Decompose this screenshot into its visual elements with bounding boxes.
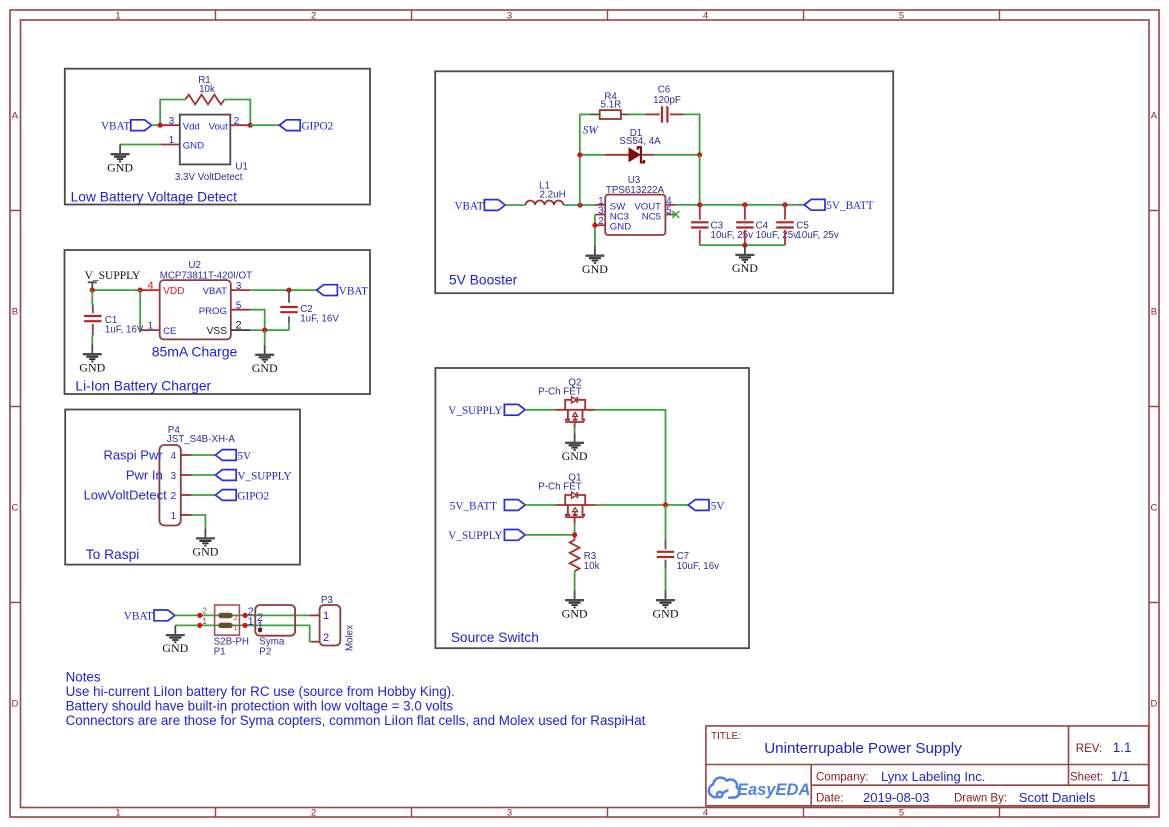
node junction Q1 gate / R3: [572, 532, 577, 537]
pin 3 stub of U2 (VBAT): [231, 289, 250, 291]
pin 4 stub of U2 (VDD, red): [140, 289, 160, 291]
svg-text:10k: 10k: [199, 84, 215, 95]
ground symbol C7: [653, 591, 679, 621]
svg-text:5: 5: [899, 808, 904, 819]
svg-text:3: 3: [171, 471, 177, 482]
svg-text:1.1: 1.1: [1113, 740, 1132, 755]
svg-text:VBAT: VBAT: [454, 200, 483, 212]
node junction bottom row P1 left: [197, 623, 202, 628]
svg-text:1: 1: [169, 135, 174, 146]
wire GND to pin1: [120, 144, 161, 146]
svg-text:V_SUPPLY: V_SUPPLY: [237, 470, 291, 482]
P1 pad bottom: [219, 623, 232, 627]
svg-text:4: 4: [703, 10, 708, 21]
svg-text:Date:: Date:: [816, 793, 844, 805]
P3 pin 1 stub: [310, 614, 320, 616]
node junction VBAT/pin3: [158, 123, 163, 128]
svg-text:5: 5: [899, 10, 904, 21]
svg-text:NC5: NC5: [642, 211, 661, 222]
wire L1 to SW pin: [563, 204, 595, 206]
svg-text:U2: U2: [188, 260, 201, 271]
svg-text:5V_BATT: 5V_BATT: [450, 500, 497, 512]
capacitor C4 plates: [736, 222, 753, 227]
capacitor C5 leads: [784, 205, 786, 245]
block frame: Low Battery Voltage Detect: [65, 69, 370, 205]
wire 5V_BATT to Q1: [525, 504, 555, 506]
P4 pin 1 stub: [181, 514, 192, 516]
capacitor C5 plates: [776, 222, 793, 227]
Q2 gate stem: [574, 422, 576, 428]
P1 pad top: [219, 613, 232, 617]
svg-text:5: 5: [236, 300, 242, 311]
node junction SW: [578, 202, 583, 207]
svg-text:V_SUPPLY: V_SUPPLY: [448, 405, 502, 417]
svg-text:CE: CE: [163, 326, 176, 337]
port VBAT: [131, 120, 152, 131]
svg-text:P2: P2: [259, 646, 271, 657]
svg-text:Notes: Notes: [66, 670, 101, 685]
pin 1 stub of U1: [161, 144, 180, 146]
wire V_SUPPLY to Q2: [525, 409, 555, 411]
node junction V_SUPPLY/C1: [90, 288, 95, 293]
connector P4 body: [159, 445, 180, 526]
capacitor C2 plates: [280, 307, 297, 312]
capacitor C6 plates: [662, 106, 667, 122]
wire Q1 to 5V junction: [595, 504, 688, 506]
svg-text:1: 1: [248, 616, 254, 628]
node junction diode left: [577, 152, 582, 157]
svg-text:B: B: [1151, 307, 1157, 318]
block frame: Li-Ion Battery Charger: [65, 250, 371, 394]
svg-text:P-Ch FET: P-Ch FET: [538, 482, 582, 493]
svg-text:5: 5: [666, 206, 672, 217]
wire V_SUPPLY to pin4 junction: [92, 289, 140, 291]
pin 2 stub of U3 (GND): [595, 224, 605, 226]
pin 2 stub of U2 (VSS, black): [231, 329, 250, 331]
svg-text:Drawn By:: Drawn By:: [954, 793, 1007, 805]
svg-text:1: 1: [115, 10, 120, 21]
svg-text:C: C: [11, 503, 18, 514]
pin 1 stub of U2 (CE): [140, 329, 160, 331]
frame column ticks top: [216, 10, 1000, 20]
ground symbol R3: [562, 591, 588, 621]
svg-text:Raspi Pwr: Raspi Pwr: [103, 447, 163, 462]
wire C2 bottom to VSS wire: [288, 323, 290, 330]
svg-text:Scott Daniels: Scott Daniels: [1019, 790, 1096, 805]
resistor R4 lead right: [621, 113, 630, 115]
ground symbol under C1: [79, 345, 105, 375]
svg-text:10k: 10k: [584, 561, 600, 572]
wire VSS to C2 bottom: [250, 329, 289, 331]
node junction top row P1 left: [197, 613, 202, 618]
port VBAT (charger output): [317, 285, 338, 296]
wire R1 right loop: [225, 100, 251, 126]
resistor R3 lead top: [574, 535, 576, 540]
title block outer rect: [706, 726, 1149, 806]
svg-text:3: 3: [598, 206, 604, 217]
port 5V (output): [688, 500, 709, 511]
wire Q2 to output corner: [595, 410, 666, 505]
connector P2 body: [255, 605, 295, 636]
svg-text:VDD: VDD: [163, 286, 185, 297]
no-connect X on NC5: [672, 211, 679, 218]
svg-text:4: 4: [147, 280, 153, 292]
svg-text:Connectors are are those for S: Connectors are are those for Syma copter…: [66, 713, 646, 728]
wire NC3 to GND pin vertical: [594, 215, 596, 247]
svg-text:2: 2: [234, 116, 239, 127]
svg-text:5.1R: 5.1R: [601, 99, 622, 110]
svg-text:3.3V VoltDetect: 3.3V VoltDetect: [175, 172, 243, 183]
svg-text:2019-08-03: 2019-08-03: [863, 790, 930, 805]
wire right loop vertical to VOUT row: [699, 155, 701, 205]
P2 pad dot: [258, 628, 262, 632]
wire 5V junction down to C7: [665, 505, 667, 540]
wire top loop right segment: [684, 114, 700, 154]
svg-text:2: 2: [311, 808, 316, 819]
svg-text:D: D: [1150, 699, 1157, 710]
port VBAT (battery connector row): [154, 610, 175, 621]
wire pin2 to GIPO2 port: [192, 494, 216, 496]
pin 4 stub of U3 (VOUT): [665, 204, 675, 206]
capacitor C6 lead right: [670, 113, 684, 115]
title block REV/Sheet column divider: [1068, 726, 1070, 785]
svg-text:1: 1: [202, 617, 207, 626]
IC U2 body: [160, 280, 231, 339]
resistor R4 body: [600, 110, 621, 119]
svg-text:10uF, 25v: 10uF, 25v: [756, 230, 799, 241]
svg-text:3: 3: [236, 281, 242, 292]
P3 pin 2 stub: [312, 641, 320, 643]
svg-text:Company:: Company:: [816, 772, 868, 784]
svg-text:LowVoltDetect: LowVoltDetect: [84, 487, 167, 502]
frame column ticks bottom: [216, 808, 1000, 818]
svg-text:GIPO2: GIPO2: [302, 121, 334, 133]
svg-text:2: 2: [234, 615, 238, 622]
svg-text:Lynx Labeling Inc.: Lynx Labeling Inc.: [881, 769, 985, 784]
svg-text:3: 3: [507, 10, 512, 21]
connector P1 body: [215, 605, 240, 635]
svg-text:REV:: REV:: [1076, 743, 1102, 755]
svg-text:V_SUPPLY: V_SUPPLY: [85, 270, 141, 282]
svg-text:2.2uH: 2.2uH: [540, 189, 566, 200]
diode D1 body: [629, 148, 640, 161]
power flag V_SUPPLY: [88, 282, 97, 290]
port 5V_BATT: [804, 199, 825, 210]
block frame: 5V Booster: [435, 71, 893, 293]
capacitor C4 leads: [744, 205, 746, 245]
wire R4 to C6: [630, 113, 646, 115]
svg-text:2: 2: [236, 320, 242, 332]
svg-text:2: 2: [323, 632, 329, 644]
pin 5 stub of U2 (PROG): [231, 309, 250, 311]
node junction top row P2 left: [243, 613, 248, 618]
svg-text:Vout: Vout: [209, 121, 229, 132]
svg-text:TITLE:: TITLE:: [711, 731, 741, 742]
svg-text:1: 1: [148, 321, 153, 332]
frame row ticks left: [10, 211, 21, 603]
pin 3 stub of U1: [160, 124, 180, 126]
svg-text:4: 4: [171, 451, 177, 462]
capacitor C6 lead left: [646, 113, 660, 115]
wire SW loop left vertical: [579, 114, 581, 205]
Q1 gate wire to junction: [574, 525, 576, 535]
title block logo cell divider: [810, 765, 812, 806]
node junction C4: [742, 202, 747, 207]
capacitor C7 plates: [657, 552, 674, 557]
port V_SUPPLY (P4): [215, 470, 236, 481]
ground symbol block1: [107, 145, 133, 175]
block frame: To Raspi: [65, 410, 300, 565]
node junction C5: [782, 202, 787, 207]
svg-text:5V_BATT: 5V_BATT: [826, 200, 873, 212]
svg-text:A: A: [1151, 111, 1158, 122]
wire V_SUPPLY to R3 node: [525, 534, 574, 536]
capacitor C1 plates: [84, 316, 101, 321]
wire VOUT to output rail: [676, 204, 805, 206]
node junction ground rail: [742, 243, 747, 248]
svg-text:Use hi-current LiIon battery f: Use hi-current LiIon battery for RC use …: [66, 684, 455, 699]
svg-text:Li-Ion Battery Charger: Li-Ion Battery Charger: [75, 378, 211, 393]
svg-text:10uF, 25v: 10uF, 25v: [711, 230, 754, 241]
block frame: Source Switch: [435, 368, 749, 648]
svg-text:1: 1: [234, 625, 238, 632]
capacitor C7 leads: [665, 540, 667, 569]
inductor L1: [526, 200, 564, 205]
wire top loop left segment: [580, 113, 590, 115]
svg-text:5V: 5V: [711, 500, 725, 512]
ground symbol under VSS: [252, 345, 278, 375]
node junction C3: [697, 202, 702, 207]
svg-text:1/1: 1/1: [1111, 769, 1130, 784]
node junction 5V output: [663, 502, 668, 507]
svg-text:C: C: [1150, 503, 1157, 514]
ground symbol Q2 gate: [562, 433, 588, 463]
svg-text:GND: GND: [610, 222, 631, 233]
svg-text:EasyEDA: EasyEDA: [737, 781, 810, 799]
pin 1 stub of U3 (SW): [595, 204, 605, 206]
wire VBAT row top: [175, 614, 310, 616]
svg-text:1: 1: [171, 511, 176, 522]
svg-text:Sheet:: Sheet:: [1070, 772, 1103, 784]
capacitor C3 leads: [699, 205, 701, 245]
wire GND row bottom: [175, 625, 312, 641]
svg-text:5V: 5V: [237, 450, 251, 462]
port 5V_BATT (Q1 input): [504, 500, 525, 511]
resistor R1: [185, 95, 224, 105]
transistor Q1 (P-Ch FET): [555, 492, 595, 517]
wire VSS node down to ground: [264, 330, 266, 345]
svg-text:10uF, 16v: 10uF, 16v: [677, 561, 720, 572]
svg-text:P1: P1: [214, 646, 226, 657]
svg-text:Source Switch: Source Switch: [451, 630, 539, 645]
svg-text:120pF: 120pF: [653, 95, 681, 106]
svg-text:P3: P3: [321, 595, 334, 606]
port GIPO2 (P4): [215, 490, 236, 501]
svg-text:V_SUPPLY: V_SUPPLY: [448, 530, 502, 542]
svg-text:VBAT: VBAT: [101, 121, 130, 133]
ground symbol booster: [732, 245, 758, 275]
svg-text:GIPO2: GIPO2: [237, 490, 269, 502]
P4 pin 4 stub: [181, 454, 192, 456]
port VBAT (booster input): [484, 200, 505, 211]
capacitor C2 leads: [288, 290, 290, 323]
IC U3 body: [605, 195, 665, 235]
Q1 gate stem to junction: [574, 517, 576, 525]
wire C7 bottom to ground: [665, 569, 667, 591]
wire C1 bottom to ground: [91, 335, 93, 344]
capacitor C1 leads: [91, 290, 93, 305]
port V_SUPPLY (R3 pullup): [504, 530, 525, 541]
port 5V (P4): [215, 450, 236, 461]
svg-text:10uF, 25v: 10uF, 25v: [796, 230, 839, 241]
node junction C2 top: [286, 288, 291, 293]
op-amp U1 body: [180, 115, 231, 165]
diode D1 cathode lead: [642, 154, 654, 156]
P4 pin 2 stub: [181, 494, 192, 496]
node junction pin2/GIPO2: [248, 123, 253, 128]
ground symbol P4: [192, 529, 218, 559]
EasyEDA logo cloud icon: [709, 778, 740, 798]
svg-text:SW: SW: [583, 125, 600, 137]
svg-text:1: 1: [323, 610, 329, 622]
svg-text:P-Ch FET: P-Ch FET: [538, 386, 582, 397]
svg-text:VBAT: VBAT: [339, 285, 368, 297]
connector P3 body: [320, 605, 341, 646]
capacitor C3 plates: [691, 222, 708, 227]
svg-text:Pwr In: Pwr In: [126, 467, 163, 482]
svg-text:GND: GND: [183, 141, 204, 152]
title block row divider: [706, 764, 1149, 766]
node junction GND pin: [592, 223, 597, 228]
P4 pin 3 stub: [181, 474, 192, 476]
svg-text:To Raspi: To Raspi: [86, 547, 140, 562]
ground symbol battery row: [162, 625, 188, 655]
svg-text:JST_S4B-XH-A: JST_S4B-XH-A: [167, 434, 236, 445]
diode D1 anode lead: [605, 154, 629, 156]
node junction diode right: [697, 152, 702, 157]
svg-text:1uF, 16V: 1uF, 16V: [105, 325, 144, 336]
port GIPO2: [279, 120, 300, 131]
wire diode row left: [580, 154, 605, 156]
wire VBAT pin to port: [250, 289, 317, 291]
resistor R4 lead left: [589, 113, 599, 115]
svg-text:VBAT: VBAT: [124, 611, 153, 623]
svg-text:TPS613222A: TPS613222A: [606, 185, 665, 196]
svg-text:2: 2: [598, 216, 603, 227]
port V_SUPPLY (Q2 input): [504, 404, 525, 415]
node junction pin4/CE branch: [138, 288, 143, 293]
svg-text:Low Battery Voltage Detect: Low Battery Voltage Detect: [71, 189, 238, 204]
svg-text:Battery should have built-in p: Battery should have built-in protection …: [66, 699, 454, 714]
svg-text:B: B: [12, 307, 18, 318]
wire pin3 to V_SUPPLY port: [192, 474, 216, 476]
wire VBAT to pin3: [152, 124, 161, 126]
svg-text:2: 2: [311, 10, 316, 21]
node junction VSS/GND: [262, 328, 267, 333]
wire pin4 to 5V port: [192, 454, 216, 456]
svg-text:Vdd: Vdd: [183, 121, 200, 132]
svg-text:4: 4: [703, 808, 708, 819]
transistor Q2 (P-Ch FET): [555, 397, 595, 422]
title block date row divider: [811, 784, 1148, 786]
wire diode row right: [654, 154, 700, 156]
wire branch down to CE pin: [139, 290, 141, 330]
svg-text:D: D: [11, 699, 18, 710]
pin 2 stub of U1: [230, 124, 250, 126]
wire pin2 to GIPO2 port: [250, 124, 279, 126]
resistor R3: [570, 540, 580, 571]
svg-text:VBAT: VBAT: [203, 286, 227, 297]
wire VBAT to L1: [505, 204, 525, 206]
svg-text:1uF, 16V: 1uF, 16V: [300, 314, 339, 325]
svg-text:3: 3: [507, 808, 512, 819]
svg-text:85mA Charge: 85mA Charge: [152, 344, 238, 360]
svg-text:Molex: Molex: [344, 625, 355, 651]
frame row ticks right: [1149, 211, 1159, 603]
wire pin1 to ground: [192, 515, 206, 529]
svg-text:3: 3: [169, 116, 175, 127]
svg-text:1: 1: [115, 808, 120, 819]
svg-text:2: 2: [171, 491, 176, 502]
pin 5 stub of U3 (NC5): [665, 214, 675, 216]
svg-text:A: A: [12, 111, 19, 122]
svg-text:5V Booster: 5V Booster: [449, 272, 518, 287]
wire R3 bottom to ground: [574, 571, 576, 590]
pin 3 stub of U3 (NC3): [595, 214, 605, 216]
svg-text:VSS: VSS: [207, 326, 228, 337]
svg-text:SS54, 4A: SS54, 4A: [619, 136, 661, 147]
svg-text:PROG: PROG: [199, 306, 227, 317]
diode D1 schottky bar: [638, 147, 644, 162]
wire PROG to VSS node: [250, 310, 265, 330]
node junction bottom row P2 left: [243, 623, 248, 628]
wire capacitor ground rail: [700, 244, 785, 246]
svg-text:2: 2: [202, 607, 207, 616]
Q2 gate wire to ground: [574, 428, 576, 433]
svg-text:Uninterrupable Power Supply: Uninterrupable Power Supply: [764, 740, 962, 757]
ground symbol U3: [582, 246, 608, 276]
wire R1 left loop: [160, 100, 185, 126]
